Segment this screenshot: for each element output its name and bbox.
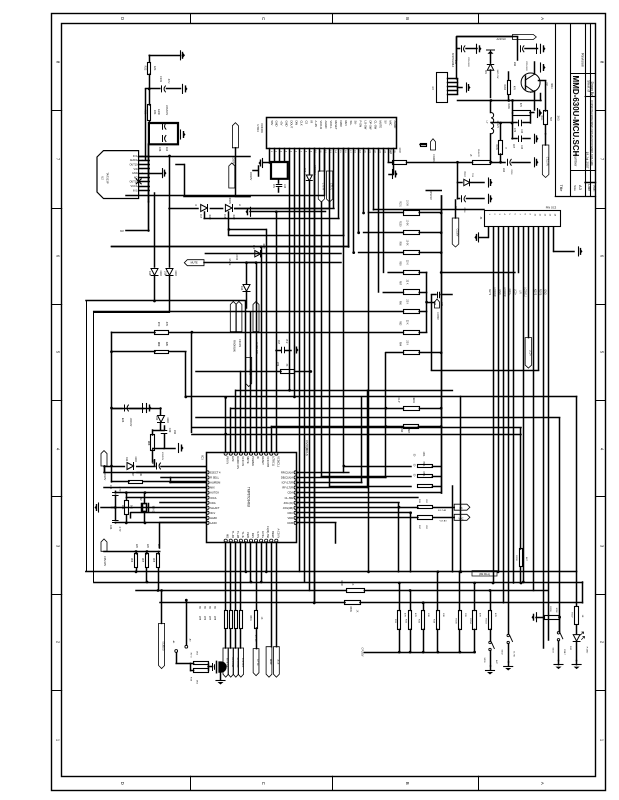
svg-text:REV: REV (251, 533, 255, 539)
svg-text:220U/16V: 220U/16V (467, 57, 469, 67)
svg-text:1K: 1K (351, 583, 353, 586)
svg-text:4148: 4148 (208, 214, 210, 220)
svg-text:VIA: VIA (133, 168, 137, 171)
svg-text:CTL1 IN: CTL1 IN (546, 157, 549, 166)
svg-text:TA7313P: TA7313P (106, 172, 110, 184)
svg-text:R92: R92 (400, 428, 403, 433)
svg-text:D11: D11 (125, 457, 128, 462)
svg-text:S6+: S6+ (349, 121, 353, 126)
svg-text:FWD: FWD (246, 532, 250, 538)
svg-text:DCB: DCB (288, 521, 294, 525)
svg-text:MUTE: MUTE (228, 259, 231, 266)
svg-text:R309: R309 (349, 606, 351, 612)
svg-text:3: 3 (141, 181, 143, 182)
svg-text:DE(CLK)A: DE(CLK)A (281, 476, 293, 480)
svg-text:CL(M)-SW: CL(M)-SW (266, 526, 270, 539)
svg-text:JOG(4B): JOG(4B) (283, 506, 293, 510)
svg-text:R94: R94 (399, 342, 401, 347)
svg-text:C: C (261, 782, 266, 785)
svg-text:C131: C131 (159, 76, 162, 83)
svg-text:10K: 10K (153, 110, 157, 115)
svg-text:S301: S301 (483, 657, 485, 663)
svg-text:VCD ON: VCD ON (241, 456, 245, 466)
svg-text:7: 7 (141, 164, 143, 165)
svg-text:VCD-L: VCD-L (329, 121, 333, 130)
svg-text:TL-4L: TL-4L (241, 531, 245, 538)
svg-text:22 K: 22 K (406, 260, 408, 265)
svg-text:R301: R301 (249, 615, 251, 621)
svg-text:5: 5 (141, 173, 143, 174)
svg-text:3CLT A/I: 3CLT A/I (438, 509, 447, 512)
svg-text:12K: 12K (153, 66, 157, 71)
svg-text:NLP: NLP (397, 398, 400, 403)
svg-text:47K: 47K (513, 86, 515, 91)
svg-text:E29: E29 (151, 460, 154, 465)
svg-text:E92: E92 (502, 168, 504, 173)
svg-text:J1: J1 (479, 217, 483, 220)
svg-text:CS: CS (304, 121, 308, 125)
svg-text:CD30V: CD30V (432, 154, 435, 162)
svg-text:R109: R109 (495, 144, 497, 150)
svg-text:Size: Size (573, 185, 577, 191)
svg-text:TMP87C846U: TMP87C846U (247, 487, 251, 508)
svg-text:4: 4 (141, 177, 143, 178)
svg-text:IOCA: IOCA (210, 496, 217, 500)
svg-text:D110: D110 (463, 171, 465, 177)
svg-text:D17: D17 (199, 214, 201, 219)
svg-text:LCD+: LCD+ (528, 350, 531, 357)
svg-text:AUTOX: AUTOX (210, 491, 219, 495)
svg-text:MUTE: MUTE (378, 121, 382, 129)
svg-text:UR: UR (518, 290, 521, 294)
svg-text:6: 6 (141, 168, 143, 169)
svg-text:ID-V: ID-V (210, 511, 215, 515)
svg-text:E91: E91 (513, 62, 516, 67)
svg-text:104: 104 (165, 147, 168, 152)
svg-text:VLT A/I: VLT A/I (440, 520, 447, 523)
svg-text:4148: 4148 (166, 417, 169, 423)
svg-text:R64: R64 (130, 558, 132, 563)
svg-text:RADIO(M): RADIO(M) (232, 340, 235, 352)
svg-text:208LT: 208LT (563, 649, 565, 656)
svg-text:1R 9S: 1R 9S (235, 254, 237, 261)
svg-text:10 0K: 10 0K (406, 220, 408, 226)
svg-text:CPU10V: CPU10V (103, 556, 107, 566)
svg-text:1K: 1K (356, 610, 358, 613)
svg-text:2: 2 (141, 185, 143, 186)
svg-text:22 K: 22 K (406, 280, 408, 285)
svg-text:C39: C39 (168, 428, 171, 433)
svg-text:MD: MD (226, 534, 230, 538)
svg-text:C72: C72 (513, 128, 515, 133)
svg-text:CRC: CRC (287, 511, 293, 515)
svg-text:CD30V: CD30V (249, 172, 253, 181)
svg-text:AGND: AGND (393, 121, 397, 129)
svg-text:4148: 4148 (134, 456, 137, 462)
svg-text:VDD: VDD (288, 516, 294, 520)
svg-text:AT179 6/38 A: AT179 6/38 A (451, 53, 454, 68)
svg-text:KEY0: KEY0 (533, 289, 536, 296)
svg-text:100/16V: 100/16V (129, 418, 131, 427)
svg-text:Title: Title (559, 185, 563, 192)
svg-text:A-CD IN: A-CD IN (276, 528, 280, 538)
svg-text:AGND: AGND (324, 121, 328, 129)
svg-text:R7.3: R7.3 (190, 653, 192, 658)
svg-text:R111: R111 (540, 115, 542, 121)
svg-text:100U/16V: 100U/16V (165, 105, 167, 116)
svg-text:8K: 8K (203, 606, 205, 609)
svg-text:Drawn By:: Drawn By: (590, 82, 594, 97)
svg-text:R308: R308 (515, 555, 517, 561)
svg-text:SH-AFT: SH-AFT (210, 506, 220, 510)
svg-text:DP-SW: DP-SW (369, 121, 373, 130)
svg-text:R306: R306 (340, 580, 342, 586)
svg-text:R77: R77 (208, 616, 210, 621)
svg-text:DIN: DIN (294, 121, 298, 126)
svg-text:47K: 47K (165, 322, 168, 327)
svg-text:10 0K: 10 0K (406, 240, 408, 246)
svg-text:EVR: EVR (231, 456, 235, 461)
svg-text:GND: GND (498, 289, 501, 295)
svg-text:P-ON: P-ON (359, 121, 363, 128)
svg-text:LO-SW: LO-SW (364, 121, 368, 130)
svg-text:CL-SW: CL-SW (285, 496, 294, 500)
svg-text:IN 1: IN 1 (133, 189, 138, 192)
svg-text:ICF (LT)R: ICF (LT)R (282, 481, 293, 485)
svg-text:GND: GND (132, 172, 138, 175)
svg-text:E24: E24 (121, 418, 124, 423)
svg-text:R65: R65 (141, 558, 143, 563)
svg-text:R70: R70 (157, 322, 160, 327)
svg-text:Revision: Revision (581, 53, 585, 67)
svg-text:E93: E93 (454, 206, 456, 211)
svg-text:C33: C33 (109, 525, 112, 530)
svg-text:MUTE: MUTE (191, 262, 198, 265)
svg-text:100K: 100K (555, 607, 557, 613)
svg-text:CON29: CON29 (260, 123, 264, 133)
svg-text:R76: R76 (203, 616, 205, 621)
svg-text:(AM 91LL): (AM 91LL) (479, 573, 490, 576)
svg-text:10K: 10K (442, 613, 444, 617)
svg-text:JOG (D): JOG (D) (283, 501, 293, 505)
svg-text:TL-4D: TL-4D (231, 531, 235, 538)
svg-text:U7D4: U7D4 (256, 124, 260, 132)
svg-text:CL-SW: CL-SW (373, 121, 377, 130)
svg-text:CPU10V: CPU10V (361, 648, 363, 657)
svg-text:2 7P: 2 7P (118, 527, 120, 532)
svg-text:D19: D19 (303, 168, 305, 173)
svg-text:FHB 20: FHB 20 (477, 149, 479, 157)
svg-text:CD ON: CD ON (238, 339, 241, 347)
svg-text:R104: R104 (389, 148, 391, 154)
svg-text:S6-: S6- (354, 121, 358, 125)
svg-text:MMD-630U-MCU.SCH: MMD-630U-MCU.SCH (571, 76, 580, 157)
svg-text:8: 8 (141, 160, 143, 161)
svg-text:220U: 220U (463, 207, 465, 213)
svg-text:4148: 4148 (159, 270, 162, 276)
svg-text:LCD(CL): LCD(CL) (523, 287, 526, 297)
svg-text:D-IN CLK: D-IN CLK (241, 658, 243, 668)
svg-text:47K: 47K (479, 613, 481, 617)
svg-text:1601: 1601 (422, 451, 424, 457)
svg-text:1K: 1K (260, 617, 262, 620)
svg-text:47K: 47K (414, 613, 416, 617)
svg-text:IN 1: IN 1 (133, 155, 138, 158)
svg-text:R308: R308 (454, 618, 456, 624)
svg-text:1: 1 (141, 190, 143, 191)
svg-text:POWER: POWER (251, 456, 255, 466)
svg-text:LCD(D1): LCD(D1) (493, 287, 496, 297)
svg-text:47K: 47K (494, 613, 496, 617)
svg-text:R68: R68 (147, 441, 150, 446)
svg-text:D:\PROTEL99SE\MMD-630U(RADIO)\: D:\PROTEL99SE\MMD-630U(RADIO)\MMD-630U.d… (590, 100, 594, 166)
svg-text:S-T IN: S-T IN (256, 659, 258, 666)
svg-text:TL-2B: TL-2B (236, 531, 240, 538)
svg-text:File:: File: (592, 185, 596, 191)
svg-text:22K: 22K (157, 544, 159, 549)
svg-text:220U: 220U (510, 169, 512, 175)
svg-text:AUDIA: AUDIA (130, 159, 138, 162)
svg-text:VCCA: VCCA (131, 185, 138, 188)
svg-text:IC3: IC3 (201, 455, 205, 460)
svg-text:EEJ(US): EEJ(US) (162, 641, 164, 650)
svg-text:R68: R68 (152, 558, 154, 563)
svg-text:KEY1: KEY1 (488, 289, 491, 296)
svg-text:C87: C87 (433, 301, 435, 306)
svg-text:4148: 4148 (174, 270, 177, 276)
svg-text:A3T: A3T (495, 660, 498, 665)
svg-text:LCD(CS): LCD(CS) (503, 287, 506, 297)
svg-text:S302: S302 (501, 649, 503, 655)
svg-text:R101: R101 (399, 201, 401, 207)
svg-text:IR: IR (256, 456, 260, 459)
svg-text:22 K: 22 K (406, 340, 408, 345)
svg-text:R306: R306 (549, 606, 551, 612)
svg-text:R149: R149 (507, 103, 509, 109)
svg-text:GND: GND (544, 289, 547, 295)
svg-text:6801: 6801 (422, 471, 424, 477)
svg-text:DVD(MCU): DVD(MCU) (305, 440, 309, 455)
svg-text:CDA: CDA (210, 501, 216, 505)
svg-text:U2: U2 (101, 176, 105, 180)
svg-text:RF (LT)R: RF (LT)R (282, 486, 293, 490)
svg-text:R307: R307 (571, 612, 573, 618)
svg-text:R304: R304 (469, 618, 471, 624)
svg-text:22K: 22K (165, 342, 168, 347)
svg-text:R SELL: R SELL (210, 476, 219, 480)
svg-text:C: C (261, 17, 266, 20)
svg-text:CD30V: CD30V (436, 312, 438, 320)
svg-text:CLK: CLK (299, 121, 303, 126)
svg-text:CD30V: CD30V (456, 229, 459, 237)
svg-text:GND: GND (285, 121, 289, 127)
svg-text:R75: R75 (198, 616, 200, 621)
svg-text:D13: D13 (240, 286, 243, 291)
svg-text:P60 IN: P60 IN (226, 456, 230, 464)
svg-text:VCD(CL): VCD(CL) (276, 456, 280, 467)
svg-text:19-Jul-2007: 19-Jul-2007 (585, 152, 589, 169)
svg-text:C81: C81 (272, 184, 274, 189)
svg-text:R90: R90 (399, 261, 401, 266)
svg-text:22 K: 22 K (406, 299, 408, 304)
svg-text:363: 363 (557, 115, 561, 120)
svg-text:MIC: MIC (388, 121, 392, 126)
svg-text:D: D (120, 17, 125, 20)
svg-text:S-T IN: S-T IN (254, 635, 256, 642)
svg-text:Date: Date (587, 184, 591, 191)
svg-text:A: A (540, 17, 545, 20)
svg-text:R303: R303 (485, 618, 487, 624)
svg-text:OUT10: OUT10 (129, 164, 138, 167)
svg-text:MIX: MIX (210, 486, 215, 490)
svg-text:VCD-R: VCD-R (319, 121, 323, 130)
svg-text:8K: 8K (198, 606, 200, 609)
svg-text:GND+: GND+ (508, 289, 511, 296)
svg-text:R22: R22 (144, 66, 148, 71)
svg-text:47K: 47K (403, 613, 405, 617)
svg-text:LA/DI: LA/DI (210, 521, 217, 525)
svg-text:8K: 8K (213, 606, 215, 609)
svg-text:A+9V: A+9V (314, 121, 318, 128)
svg-text:867: 867 (407, 429, 410, 434)
svg-text:PIN OC3: PIN OC3 (546, 206, 557, 210)
svg-text:9014: 9014 (550, 83, 553, 89)
svg-text:CTL-R: CTL-R (321, 183, 324, 191)
svg-text:D12: D12 (155, 416, 158, 421)
svg-text:BEEP: BEEP (271, 531, 275, 538)
svg-text:8601: 8601 (422, 461, 424, 467)
svg-text:A21VHI: A21VHI (497, 37, 506, 41)
svg-text:1K03: 1K03 (398, 147, 400, 153)
svg-text:REV: REV (344, 121, 348, 127)
svg-text:CPU 9V: CPU 9V (429, 190, 433, 200)
svg-text:EJECT 4: EJECT 4 (210, 471, 221, 475)
svg-text:18.2: 18.2 (285, 339, 287, 344)
svg-text:REYB: REYB (539, 289, 542, 296)
svg-text:220uH: 220uH (496, 121, 498, 128)
svg-text:CD10V: CD10V (228, 196, 231, 204)
svg-text:AU/RDM: AU/RDM (210, 481, 220, 485)
svg-text:3K: 3K (285, 364, 287, 367)
svg-text:R21: R21 (144, 110, 148, 115)
svg-text:D16: D16 (164, 271, 167, 276)
svg-text:S-TIN: S-TIN (256, 531, 260, 538)
svg-text:A3: A3 (578, 185, 583, 191)
svg-text:203: 203 (173, 430, 176, 435)
svg-text:R100: R100 (399, 221, 401, 227)
svg-text:10 0K: 10 0K (406, 200, 408, 206)
svg-text:S303: S303 (552, 647, 554, 653)
svg-text:HA/DI: HA/DI (210, 516, 217, 520)
svg-text:B: B (405, 782, 410, 785)
svg-text:9V: 9V (120, 229, 124, 233)
svg-text:R93: R93 (399, 321, 401, 326)
svg-text:RF(CLK)A: RF(CLK)A (281, 471, 293, 475)
svg-text:8K: 8K (208, 606, 210, 609)
svg-text:RESET: RESET (334, 121, 338, 130)
svg-text:A: A (540, 782, 545, 785)
svg-text:10K: 10K (427, 613, 429, 617)
svg-text:A-LE: A-LE (276, 660, 279, 665)
svg-text:FWD: FWD (339, 121, 343, 127)
svg-text:D-TB: D-TB (513, 651, 515, 657)
svg-text:BREF: BREF (269, 659, 271, 665)
svg-text:E130: E130 (157, 109, 160, 115)
svg-text:C67: C67 (512, 144, 514, 149)
svg-text:50V: 50V (270, 121, 274, 126)
svg-text:P-LED: P-LED (586, 647, 588, 654)
svg-text:L(TBCL): L(TBCL) (271, 456, 275, 466)
svg-text:B: B (405, 17, 410, 20)
svg-text:C36: C36 (158, 147, 161, 152)
svg-text:R144: R144 (503, 84, 505, 90)
svg-text:5V: 5V (383, 121, 387, 124)
svg-text:RADIO ON: RADIO ON (236, 456, 240, 469)
svg-text:R99: R99 (399, 241, 401, 246)
svg-text:Number: Number (574, 154, 578, 168)
svg-text:D21: D21 (484, 70, 486, 75)
svg-text:+5V: +5V (280, 121, 284, 126)
svg-text:4148: 4148 (232, 214, 234, 220)
svg-text:D10: D10 (252, 245, 254, 250)
svg-text:R78: R78 (213, 616, 215, 621)
svg-text:D: D (120, 782, 125, 785)
svg-text:22K: 22K (464, 613, 466, 617)
svg-text:47K: 47K (519, 103, 521, 108)
svg-text:R69: R69 (157, 342, 160, 347)
svg-text:RESET: RESET (261, 456, 265, 465)
svg-text:MITE DIN: MITE DIN (236, 658, 238, 668)
svg-text:VCD 9TB: VCD 9TB (266, 456, 270, 467)
svg-text:R96: R96 (399, 301, 401, 306)
svg-text:47U: 47U (167, 79, 170, 84)
svg-text:220U/16V: 220U/16V (525, 61, 527, 71)
svg-text:C97: C97 (277, 340, 279, 345)
svg-text:9625 7W: 9625 7W (496, 70, 498, 80)
svg-text:EVR+: EVR+ (261, 531, 265, 538)
svg-text:GND: GND (275, 121, 279, 127)
svg-text:D15: D15 (148, 271, 151, 276)
svg-text:MUTE: MUTE (246, 456, 250, 464)
svg-text:22 K: 22 K (406, 320, 408, 325)
svg-text:IR: IR (309, 121, 313, 124)
svg-text:DOUT: DOUT (290, 121, 294, 129)
svg-text:LCD+: LCD+ (513, 289, 516, 296)
svg-text:R97: R97 (399, 281, 401, 286)
svg-text:CDA: CDA (288, 491, 294, 495)
svg-text:100/16V: 100/16V (161, 452, 163, 461)
svg-text:22K: 22K (135, 544, 137, 549)
svg-text:22K: 22K (146, 544, 148, 549)
svg-text:1601: 1601 (412, 397, 415, 403)
